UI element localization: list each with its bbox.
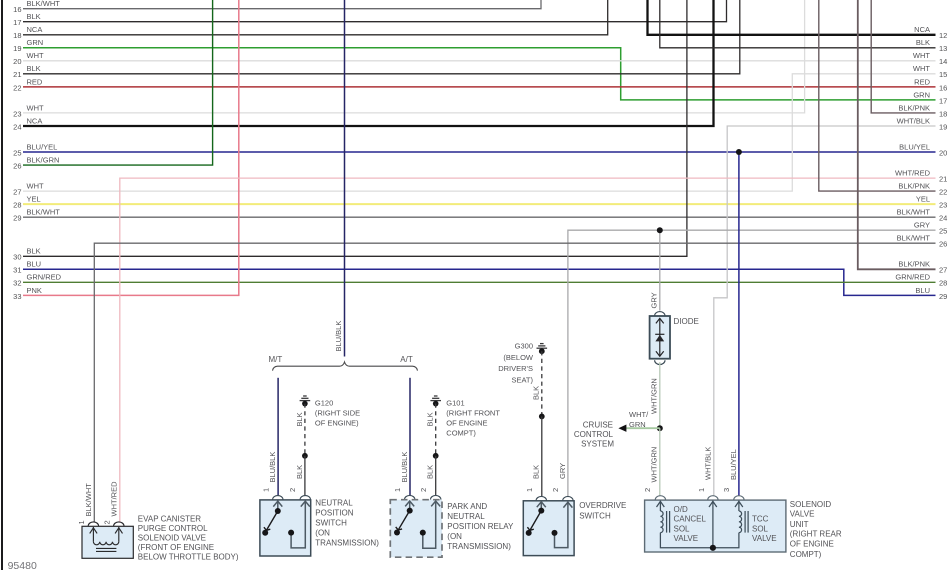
node overdrive blade pivot: [538, 508, 544, 514]
svg-text:13: 13: [939, 44, 947, 53]
wire pin16 BLK/WHT to top: [23, 0, 541, 9]
junction node GRY: [657, 227, 663, 233]
wire BLU/BLK A/T branch to park/neutral relay pin1: [409, 378, 411, 496]
svg-text:BLK/WHT: BLK/WHT: [27, 208, 61, 217]
svg-text:15: 15: [939, 70, 947, 79]
solenoid valve unit box: [645, 500, 786, 552]
svg-text:28: 28: [939, 279, 947, 288]
svg-text:16: 16: [939, 83, 947, 92]
junction node WHT/GRN cruise tap: [657, 425, 663, 431]
svg-text:NCA: NCA: [27, 25, 43, 34]
wire pin30 BLK to top: [23, 0, 687, 256]
svg-text:29: 29: [13, 214, 21, 223]
svg-text:95480: 95480: [8, 560, 37, 571]
wire WHT pin27-left to pin15-right: [23, 74, 936, 191]
svg-text:COMPT): COMPT): [446, 429, 476, 438]
svg-text:SOLENOID: SOLENOID: [790, 500, 832, 509]
svg-text:CRUISE: CRUISE: [583, 421, 613, 430]
svg-text:BLK: BLK: [426, 465, 435, 479]
switch overdrive: [523, 501, 574, 556]
svg-text:SEAT): SEAT): [511, 376, 533, 385]
svg-text:DRIVER'S: DRIVER'S: [498, 364, 533, 373]
wire BLU/YEL branch down to TCC sol valve pin3: [738, 152, 740, 496]
svg-text:CANCEL: CANCEL: [674, 515, 707, 524]
svg-text:G101: G101: [446, 399, 464, 408]
svg-text:YEL: YEL: [916, 195, 930, 204]
svg-text:NCA: NCA: [914, 25, 930, 34]
svg-text:WHT/: WHT/: [629, 410, 649, 419]
svg-text:NEUTRAL: NEUTRAL: [315, 499, 353, 508]
svg-text:23: 23: [939, 201, 947, 210]
svg-text:VALVE: VALVE: [790, 510, 815, 519]
svg-text:NCA: NCA: [27, 116, 43, 125]
wire BLK/PNK pin18-right from top: [871, 0, 935, 113]
svg-text:O/D: O/D: [674, 505, 688, 514]
svg-text:EVAP CANISTER: EVAP CANISTER: [138, 515, 202, 524]
relay park and neutral position (dashed): [390, 500, 442, 558]
svg-text:17: 17: [939, 96, 947, 105]
svg-text:WHT/RED: WHT/RED: [110, 481, 119, 517]
svg-text:GRY: GRY: [650, 292, 659, 308]
svg-text:OF ENGINE): OF ENGINE): [315, 419, 359, 428]
svg-text:BLK: BLK: [27, 64, 41, 73]
svg-text:(ON: (ON: [315, 529, 330, 538]
svg-text:22: 22: [939, 188, 947, 197]
svg-text:1: 1: [697, 488, 706, 492]
svg-text:2: 2: [643, 488, 652, 492]
wire BLU/BLK M/T branch to neutral position switch pin1: [277, 378, 279, 496]
svg-text:33: 33: [13, 292, 21, 301]
svg-text:RED: RED: [914, 77, 930, 86]
svg-text:18: 18: [13, 31, 21, 40]
wire BLK dashed from G120: [304, 404, 306, 456]
svg-text:BLK: BLK: [426, 412, 435, 426]
junction node valve unit common: [710, 545, 716, 551]
svg-text:(RIGHT FRONT: (RIGHT FRONT: [446, 409, 500, 418]
svg-text:19: 19: [939, 122, 947, 131]
wire BLU pin31-left to pin29-right: [23, 269, 936, 295]
connector bracket diode bottom: [655, 360, 665, 364]
svg-text:WHT/GRN: WHT/GRN: [650, 447, 659, 483]
wire BLK/PNK pin22-right from top: [819, 0, 936, 191]
node switch blade pivot: [275, 508, 281, 514]
wire BLU/BLK from top to M/T A/T brace: [344, 0, 346, 357]
wire WHT/GRN stub to cruise control system: [626, 427, 659, 429]
wire BLK to overdrive switch pin1: [541, 416, 543, 496]
svg-text:BLU: BLU: [27, 260, 42, 269]
connector bracket neutral switch pin1: [273, 496, 283, 500]
svg-text:BLU: BLU: [915, 286, 930, 295]
junction node BLU/YEL: [736, 149, 742, 155]
svg-text:32: 32: [13, 279, 21, 288]
svg-text:2: 2: [103, 520, 112, 524]
wire pin23 WHT to top: [23, 0, 805, 113]
svg-text:3: 3: [722, 488, 731, 492]
connector bracket EVAP pin1: [88, 522, 98, 526]
svg-text:BLK: BLK: [27, 247, 41, 256]
wire WHT pin20-left to pin14-right: [23, 60, 936, 62]
svg-text:17: 17: [13, 18, 21, 27]
svg-text:A/T: A/T: [400, 355, 413, 364]
svg-text:G120: G120: [315, 399, 333, 408]
wire BLK to park/neutral relay pin2: [435, 456, 437, 496]
svg-text:GRN/RED: GRN/RED: [27, 273, 62, 282]
ground G300: [537, 344, 548, 349]
svg-text:POSITION: POSITION: [315, 509, 353, 518]
svg-text:1: 1: [393, 488, 402, 492]
svg-text:OVERDRIVE: OVERDRIVE: [579, 501, 626, 510]
solenoid valve EVAP canister purge control: [82, 526, 133, 558]
svg-text:(BELOW: (BELOW: [503, 353, 534, 362]
node relay blade end: [394, 530, 400, 536]
svg-text:SOL: SOL: [674, 524, 691, 533]
arrow to cruise control system: [618, 425, 626, 432]
svg-text:SOLENOID VALVE: SOLENOID VALVE: [138, 534, 206, 543]
svg-text:26: 26: [939, 240, 947, 249]
svg-text:PARK AND: PARK AND: [447, 502, 487, 511]
svg-text:21: 21: [939, 175, 947, 184]
wire BLK/PNK pin27-right from top: [858, 0, 936, 269]
svg-text:BLK: BLK: [916, 38, 930, 47]
svg-text:24: 24: [939, 214, 947, 223]
svg-text:OF ENGINE: OF ENGINE: [790, 539, 834, 548]
svg-text:TRANSMISSION): TRANSMISSION): [447, 542, 511, 551]
svg-text:27: 27: [939, 266, 947, 275]
svg-text:(ON: (ON: [447, 532, 462, 541]
svg-text:SWITCH: SWITCH: [315, 519, 347, 528]
svg-text:GRY: GRY: [914, 221, 930, 230]
brace M/T A/T split: [273, 362, 418, 371]
page border left edge: [1, 0, 3, 570]
svg-text:29: 29: [939, 292, 947, 301]
wire GRN pin19-left to pin17-right: [23, 48, 936, 100]
svg-text:1: 1: [77, 520, 86, 524]
connector bracket valve unit pin2: [655, 496, 665, 500]
wire BLK/WHT pin26-right to EVAP solenoid pin1: [94, 243, 935, 522]
svg-text:BLU/BLK: BLU/BLK: [334, 321, 343, 352]
svg-text:RED: RED: [27, 77, 43, 86]
svg-text:WHT/BLK: WHT/BLK: [897, 116, 930, 125]
svg-text:NEUTRAL: NEUTRAL: [447, 512, 485, 521]
svg-text:30: 30: [13, 253, 21, 262]
svg-text:G300: G300: [515, 342, 533, 351]
wire BLK to neutral position switch pin2: [304, 456, 306, 496]
svg-text:VALVE: VALVE: [752, 534, 777, 543]
svg-text:GRN: GRN: [27, 38, 44, 47]
svg-text:UNIT: UNIT: [790, 520, 809, 529]
svg-text:BLK/WHT: BLK/WHT: [84, 483, 93, 517]
junction node BLK G120: [302, 453, 308, 459]
svg-text:BLK/PNK: BLK/PNK: [898, 103, 930, 112]
svg-text:22: 22: [13, 83, 21, 92]
svg-text:(RIGHT REAR: (RIGHT REAR: [790, 530, 842, 539]
svg-text:BLK: BLK: [532, 386, 541, 400]
svg-text:2: 2: [419, 488, 428, 492]
svg-text:TRANSMISSION): TRANSMISSION): [315, 539, 379, 548]
svg-text:DIODE: DIODE: [674, 317, 699, 326]
node overdrive blade end: [526, 530, 532, 536]
connector bracket valve unit pin3: [734, 496, 744, 500]
wire GRN/RED pin32-left to pin28-right: [23, 281, 936, 283]
svg-text:BLK/WHT: BLK/WHT: [897, 234, 931, 243]
solenoid O/D cancel sol valve coil: [657, 501, 743, 548]
svg-text:WHT/RED: WHT/RED: [895, 169, 931, 178]
svg-text:WHT/BLK: WHT/BLK: [704, 447, 713, 480]
svg-text:PNK: PNK: [27, 286, 42, 295]
svg-text:GRN: GRN: [913, 90, 930, 99]
svg-text:VALVE: VALVE: [674, 534, 699, 543]
svg-text:BLK/GRN: BLK/GRN: [27, 156, 60, 165]
wire WHT/GRN to O/D cancel sol valve pin2: [659, 428, 661, 495]
svg-text:12: 12: [939, 31, 947, 40]
svg-text:WHT: WHT: [27, 51, 44, 60]
connector bracket diode top: [655, 312, 665, 316]
svg-text:YEL: YEL: [27, 195, 41, 204]
svg-text:BLK/WHT: BLK/WHT: [27, 0, 61, 8]
svg-text:18: 18: [939, 109, 947, 118]
connector bracket valve unit pin1: [708, 496, 718, 500]
node relay contact: [420, 530, 426, 536]
svg-text:1: 1: [261, 488, 270, 492]
svg-text:16: 16: [13, 5, 21, 14]
svg-text:2: 2: [288, 488, 297, 492]
svg-text:SOL: SOL: [752, 524, 769, 533]
wire GRY pin25-right to overdrive switch pin2: [568, 230, 936, 496]
svg-text:20: 20: [939, 148, 947, 157]
svg-text:(FRONT OF ENGINE: (FRONT OF ENGINE: [138, 543, 214, 552]
wire BLU/YEL pin25-left to pin20-right: [23, 151, 936, 153]
wire pin18 NCA to top: [23, 0, 608, 35]
svg-text:28: 28: [13, 201, 21, 210]
svg-text:WHT: WHT: [913, 64, 930, 73]
svg-text:19: 19: [13, 44, 21, 53]
svg-text:24: 24: [13, 122, 21, 131]
svg-text:BLK: BLK: [532, 465, 541, 479]
ground G120: [300, 396, 311, 401]
svg-text:SWITCH: SWITCH: [579, 511, 611, 520]
svg-text:BLU/BLK: BLU/BLK: [268, 452, 277, 483]
svg-text:26: 26: [13, 162, 21, 171]
svg-text:GRN/RED: GRN/RED: [895, 273, 930, 282]
svg-text:COMPT): COMPT): [790, 550, 822, 559]
wire BLK dashed from G300: [541, 351, 543, 416]
svg-text:BLU/BLK: BLU/BLK: [400, 452, 409, 483]
connector bracket overdrive switch pin1: [536, 496, 546, 500]
svg-text:CONTROL: CONTROL: [574, 430, 614, 439]
svg-text:BLU/YEL: BLU/YEL: [899, 142, 930, 151]
junction node BLK G300: [539, 414, 545, 420]
svg-text:BLK/WHT: BLK/WHT: [897, 208, 931, 217]
svg-text:WHT: WHT: [27, 182, 44, 191]
svg-text:21: 21: [13, 70, 21, 79]
connector bracket EVAP pin2: [114, 522, 124, 526]
svg-text:(RIGHT SIDE: (RIGHT SIDE: [315, 409, 360, 418]
node switch contact: [288, 530, 294, 536]
wire pin17 BLK to top: [23, 0, 727, 22]
svg-text:BLK: BLK: [295, 465, 304, 479]
wire WHT/BLK pin19-right to solenoid valve unit pin1: [714, 126, 936, 496]
wire BLK pin13-right from top: [660, 0, 936, 48]
wire WHT/RED pin21-right to EVAP solenoid pin2: [120, 178, 936, 522]
svg-text:GRN: GRN: [629, 420, 646, 429]
wire pin24 NCA to top: [23, 0, 714, 126]
solenoid TCC sol valve coil: [739, 501, 748, 533]
svg-text:BELOW THROTTLE BODY): BELOW THROTTLE BODY): [138, 553, 239, 562]
wire NCA pin12-right from top: [648, 0, 936, 35]
svg-text:25: 25: [939, 227, 947, 236]
wire BLK/WHT pin29-left to pin24-right: [23, 216, 936, 218]
svg-text:20: 20: [13, 57, 21, 66]
wire GRY branch down to diode: [659, 230, 661, 310]
svg-text:31: 31: [13, 266, 21, 275]
svg-text:WHT: WHT: [913, 51, 930, 60]
wire pin21 BLK to top: [23, 0, 740, 74]
svg-text:WHT: WHT: [27, 103, 44, 112]
junction node BLK G101: [433, 453, 439, 459]
svg-text:14: 14: [939, 57, 947, 66]
connector bracket overdrive switch pin2: [563, 496, 573, 500]
svg-text:25: 25: [13, 148, 21, 157]
svg-text:27: 27: [13, 188, 21, 197]
svg-text:23: 23: [13, 109, 21, 118]
svg-text:BLU/YEL: BLU/YEL: [27, 142, 58, 151]
svg-text:BLK: BLK: [27, 12, 41, 21]
svg-text:TCC: TCC: [752, 515, 769, 524]
svg-text:2: 2: [551, 488, 560, 492]
wire WHT/GRN diode to junction: [659, 362, 661, 428]
wire pin26 BLK/GRN to top: [23, 0, 213, 165]
node overdrive contact: [552, 530, 558, 536]
node switch blade end: [262, 530, 268, 536]
svg-text:PURGE CONTROL: PURGE CONTROL: [138, 524, 208, 533]
switch neutral position: [260, 500, 311, 556]
wire RED pin22-left to pin16-right: [23, 86, 936, 88]
wire YEL pin28-left to pin23-right: [23, 203, 936, 205]
svg-text:M/T: M/T: [269, 355, 283, 364]
node relay blade pivot: [407, 508, 413, 514]
svg-text:SYSTEM: SYSTEM: [581, 440, 614, 449]
connector bracket park/neutral relay pin2: [431, 495, 441, 499]
wire pin33 PNK to top: [23, 0, 239, 295]
wire BLK dashed from G101: [435, 404, 437, 456]
diode D1: [650, 316, 670, 359]
svg-text:GRY: GRY: [558, 463, 567, 479]
svg-text:WHT/GRN: WHT/GRN: [650, 378, 659, 414]
connector bracket neutral switch pin2: [300, 496, 310, 500]
svg-text:BLK: BLK: [295, 412, 304, 426]
ground G101: [430, 396, 441, 401]
svg-text:1: 1: [525, 488, 534, 492]
svg-text:POSITION RELAY: POSITION RELAY: [447, 522, 514, 531]
svg-text:OF ENGINE: OF ENGINE: [446, 419, 487, 428]
svg-text:BLK/PNK: BLK/PNK: [898, 182, 930, 191]
svg-text:BLU/YEL: BLU/YEL: [729, 449, 738, 480]
connector bracket park/neutral relay pin1: [405, 495, 415, 499]
svg-text:BLK/PNK: BLK/PNK: [898, 260, 930, 269]
